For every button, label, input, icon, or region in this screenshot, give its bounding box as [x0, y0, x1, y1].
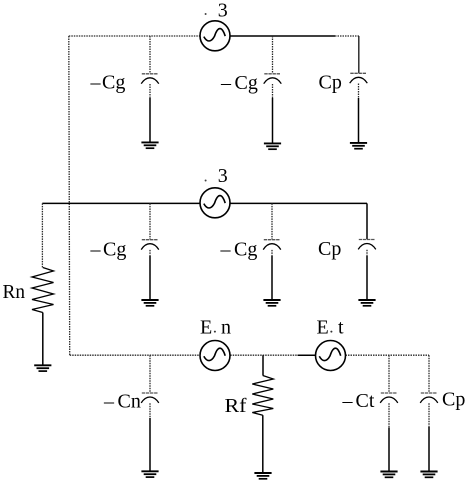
svg-text:t: t	[338, 317, 344, 339]
svg-text:–: –	[220, 239, 232, 261]
svg-text:n: n	[221, 317, 231, 339]
svg-text:–: –	[103, 391, 115, 413]
svg-text:Cg: Cg	[235, 72, 258, 94]
svg-text:Cg: Cg	[103, 239, 126, 261]
svg-text:–: –	[220, 72, 232, 94]
svg-text:Cp: Cp	[319, 72, 342, 94]
svg-text:E: E	[200, 317, 212, 339]
svg-text:–: –	[90, 239, 102, 261]
svg-text:Ct: Ct	[356, 390, 375, 412]
svg-text:E: E	[317, 317, 329, 339]
svg-text:Rf: Rf	[225, 395, 247, 417]
svg-text:3: 3	[218, 0, 228, 21]
svg-text:–: –	[90, 72, 102, 94]
svg-text:3: 3	[218, 165, 228, 187]
svg-text:Cp: Cp	[442, 389, 465, 411]
svg-text:Rn: Rn	[3, 281, 26, 303]
svg-text:Cg: Cg	[234, 239, 257, 261]
svg-text:–: –	[342, 390, 354, 412]
svg-text:Cg: Cg	[102, 72, 125, 94]
svg-text:Cp: Cp	[318, 238, 341, 260]
svg-text:Cn: Cn	[118, 391, 141, 413]
